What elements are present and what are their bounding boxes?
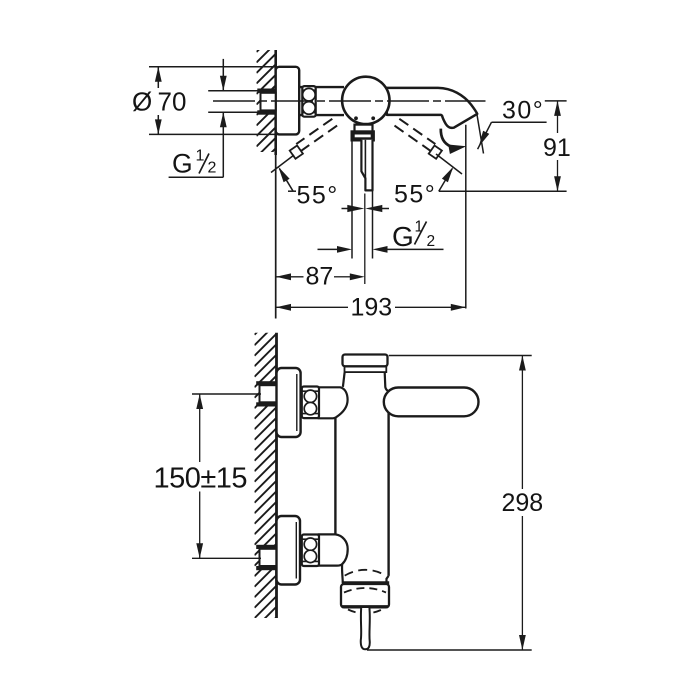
wall face extension line down to dims xyxy=(275,155,277,319)
outlet centerline below lever xyxy=(364,194,366,285)
svg-text:30°: 30° xyxy=(502,97,544,125)
dimension G1/2 outlet xyxy=(318,248,339,250)
lever neck xyxy=(355,125,373,132)
svg-text:298: 298 xyxy=(502,489,544,517)
upper union cone xyxy=(318,387,348,418)
dashed lever position right 55deg xyxy=(399,119,435,144)
svg-text:G: G xyxy=(172,149,193,179)
cap ring xyxy=(345,366,387,372)
converging arrows at outlet centerline xyxy=(342,208,349,210)
lower union hex nut xyxy=(302,535,319,567)
lower wall fitting nipple xyxy=(260,549,277,566)
dashed arc inside aerator xyxy=(344,588,386,593)
spout holder left contour xyxy=(341,564,344,583)
wall hatching (top view) xyxy=(257,33,276,168)
svg-text:G: G xyxy=(392,221,414,252)
dimension G1/2 wall nipple xyxy=(222,59,224,91)
dimension 193 xyxy=(276,306,348,308)
91 bottom extension / 55deg right label line xyxy=(439,190,567,192)
upper wall fitting nipple xyxy=(260,385,277,402)
lower union cone xyxy=(318,534,348,565)
svg-text:87: 87 xyxy=(306,263,334,291)
svg-text:2: 2 xyxy=(208,160,217,177)
lower escutcheon xyxy=(277,516,301,585)
wall line (top view) xyxy=(274,50,277,155)
upper connection centerline / 150 extension xyxy=(192,393,261,395)
dashed swivel arc (top of spout holder) xyxy=(345,570,386,576)
neck under cap xyxy=(343,373,345,387)
svg-text:1: 1 xyxy=(196,148,205,165)
svg-text:91: 91 xyxy=(543,134,571,162)
dimension dia 70 xyxy=(157,67,159,89)
lever end cap left (dashed position) xyxy=(290,146,303,159)
upper union hex nut xyxy=(302,387,319,419)
threaded inlet nipple in wall (top view) xyxy=(261,93,276,111)
lever stem xyxy=(361,140,372,191)
faucet body right edge (bottom view) xyxy=(387,390,389,576)
dimension 150+-15 xyxy=(199,394,201,462)
axis centerline (top view) xyxy=(213,100,486,102)
spout (top view, curving right and down) xyxy=(384,88,477,128)
svg-text:2: 2 xyxy=(427,233,436,250)
spout swivel curved arrow xyxy=(441,129,451,147)
G1/2 nipple extension lines xyxy=(208,90,258,92)
cartridge body circle (top view) xyxy=(342,77,389,124)
svg-text:193: 193 xyxy=(351,294,393,322)
leader arrow left 55deg xyxy=(280,169,294,192)
lever collar xyxy=(353,132,373,139)
G1/2 outlet extension lines under lever xyxy=(351,140,353,259)
faucet body left edge (bottom view) xyxy=(334,408,336,534)
lever axis extension left xyxy=(271,155,294,173)
dashed lever position left 55deg xyxy=(296,119,332,144)
svg-text:1: 1 xyxy=(415,219,424,236)
upper escutcheon xyxy=(277,368,301,437)
svg-text:150±15: 150±15 xyxy=(154,463,248,495)
screw dots on body xyxy=(354,116,358,120)
wall escutcheon (top view) xyxy=(276,67,300,135)
svg-text:55°: 55° xyxy=(297,182,339,210)
wall line (bottom view) xyxy=(275,333,278,618)
dimension 91 xyxy=(545,100,567,102)
spout holder right chamfer xyxy=(387,576,389,583)
extension line top (escutcheon top edge / dia70) xyxy=(149,66,276,68)
handle lever (bottom view) xyxy=(384,388,479,417)
dimension 87 xyxy=(276,276,304,278)
top cap xyxy=(343,355,388,367)
dashed arc below aerator xyxy=(348,610,382,614)
193 right extension line (spout tip) xyxy=(465,125,467,309)
svg-text:70: 70 xyxy=(158,87,187,117)
dimension 298 xyxy=(389,355,532,357)
joint line (thick) xyxy=(342,581,389,584)
spout outlet face extension line (30deg reference) xyxy=(477,114,484,154)
lower connection centerline / 150 extension xyxy=(192,557,261,559)
svg-text:55°: 55° xyxy=(394,181,436,209)
leader arrow right 55deg xyxy=(439,169,452,192)
water stream / mousseur outline xyxy=(361,608,370,649)
svg-text:Ø: Ø xyxy=(132,87,152,117)
body tube between nut and cartridge body xyxy=(299,86,344,88)
lever axis extension right xyxy=(436,154,462,174)
wall hatching (bottom view) xyxy=(255,313,277,640)
union hex nut (top view) xyxy=(302,86,315,117)
aerator block xyxy=(341,584,389,607)
lever end cap right (dashed position) xyxy=(429,146,442,159)
extension line bottom (escutcheon bottom edge / dia70) xyxy=(149,133,276,135)
